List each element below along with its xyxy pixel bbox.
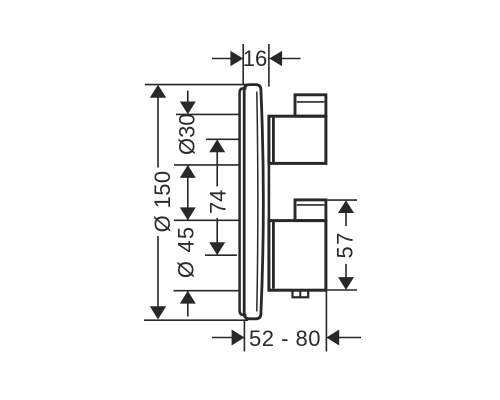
arrow 52-80 right xyxy=(326,330,339,346)
arrow 16 right xyxy=(269,51,282,66)
dimension 74 line bottom xyxy=(216,218,218,247)
extension line bottom handle bottom xyxy=(174,290,240,292)
extension line plate bottom xyxy=(144,319,248,321)
arrow O150 bottom xyxy=(150,306,166,319)
svg-text:16: 16 xyxy=(243,46,267,71)
extension line 52-80 right xyxy=(325,292,327,352)
dimension 16 right leader xyxy=(282,58,301,60)
dimension 74 line top xyxy=(216,148,218,187)
dimension 52-80 right leader xyxy=(338,337,361,339)
bottom handle grip xyxy=(295,200,326,221)
bottom handle grip inner line xyxy=(297,204,325,206)
svg-text:57: 57 xyxy=(333,231,358,258)
top handle collar line xyxy=(272,118,275,162)
extension line top handle bottom xyxy=(174,164,240,166)
extension line 57 bottom xyxy=(328,289,358,291)
dimension O150 line bottom xyxy=(157,236,159,308)
dimension O45 leader below xyxy=(187,291,189,317)
arrow 74 top xyxy=(209,139,225,152)
dimension chain O30-O45 middle xyxy=(187,165,189,220)
faceplate sleeve xyxy=(244,85,263,319)
top handle grip xyxy=(295,95,326,116)
arrow O150 top xyxy=(150,85,166,98)
arrow 52-80 left xyxy=(232,330,245,346)
svg-text:Ø 150: Ø 150 xyxy=(150,170,175,232)
arrow 57 bottom xyxy=(338,277,354,290)
extension line 16 right xyxy=(268,44,270,87)
extension line plate top xyxy=(145,84,248,86)
arrow 74 bottom xyxy=(209,242,225,255)
extension line 16 left xyxy=(242,44,244,84)
extension line 52-80 left xyxy=(243,320,245,352)
arrow O45 top xyxy=(180,207,196,220)
arrow 57 top xyxy=(338,200,354,213)
bottom handle body xyxy=(269,221,326,291)
dimension 57 line top xyxy=(345,209,347,226)
svg-text:74: 74 xyxy=(206,190,231,214)
dimension 57 line bottom xyxy=(345,264,347,281)
extension line top handle centre xyxy=(206,138,240,140)
extension line top handle top xyxy=(176,113,240,115)
extension line bottom handle top xyxy=(174,219,240,221)
dimension 52-80 left leader xyxy=(212,337,233,339)
extension line 57 top xyxy=(328,199,358,201)
dimension 16 left leader xyxy=(212,58,232,60)
svg-text:Ø30: Ø30 xyxy=(175,113,200,155)
arrow O30 top xyxy=(180,102,196,115)
bottom nub xyxy=(293,290,309,297)
arrow 16 left xyxy=(230,51,243,66)
extension line bottom handle centre xyxy=(205,254,237,256)
top handle body xyxy=(269,116,326,163)
dimension O150 line top xyxy=(157,97,159,168)
svg-text:Ø 45: Ø 45 xyxy=(174,226,199,279)
arrow O30 bottom xyxy=(180,165,196,178)
bottom nub divider xyxy=(299,290,301,297)
bottom handle collar line xyxy=(272,222,275,289)
dimension O30 leader above xyxy=(187,91,189,103)
faceplate face contour line xyxy=(257,92,258,312)
top handle grip inner line xyxy=(297,101,325,103)
faceplate front cover outline xyxy=(240,88,247,315)
valve body column xyxy=(268,116,271,291)
arrow O45 bottom xyxy=(180,291,196,304)
svg-text:52 - 80: 52 - 80 xyxy=(249,326,321,351)
